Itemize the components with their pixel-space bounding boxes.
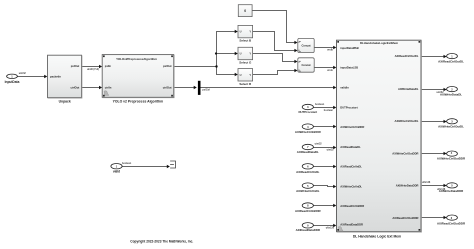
svg-text:AXIReadDataDL: AXIReadDataDL <box>340 145 361 149</box>
svg-text:AXIWriteCtrlOutDL: AXIWriteCtrlOutDL <box>438 125 464 129</box>
svg-text:YOLO v2 Preprocess Algorithm: YOLO v2 Preprocess Algorithm <box>113 100 164 104</box>
svg-text:U: U <box>240 74 242 77</box>
svg-text:YOLOv2PreprocessAlgorithm: YOLOv2PreprocessAlgorithm <box>116 57 157 61</box>
svg-text:uint32: uint32 <box>327 149 335 152</box>
svg-text:AXIReadDataDDR: AXIReadDataDDR <box>340 222 363 226</box>
svg-text:inputDataLSB: inputDataLSB <box>340 66 358 70</box>
svg-text:ctrlOut: ctrlOut <box>70 86 79 90</box>
svg-text:wrdb: wrdb <box>327 49 333 52</box>
svg-text:Concat: Concat <box>301 44 310 48</box>
svg-text:Concat: Concat <box>301 63 310 67</box>
svg-text:ctrlIn: ctrlIn <box>105 85 112 89</box>
svg-text:ufix128: ufix128 <box>326 227 335 230</box>
svg-text:pxlOut: pxlOut <box>71 64 80 68</box>
svg-text:boolean: boolean <box>315 103 325 106</box>
svg-text:Copyright 2022-2023 The MathWo: Copyright 2022-2023 The MathWorks, Inc. <box>130 239 193 243</box>
svg-text:packetIn: packetIn <box>50 74 61 78</box>
svg-text:uint32: uint32 <box>315 143 323 146</box>
svg-text:AXIWriteCtrlInDDR: AXIWriteCtrlInDDR <box>295 130 322 134</box>
svg-text:AXIReadDataDDR: AXIReadDataDDR <box>296 228 321 232</box>
svg-text:ctrlOut: ctrlOut <box>163 85 172 89</box>
svg-text:valid: valid <box>113 170 120 174</box>
svg-text:AXIReadCtrlInDDR: AXIReadCtrlInDDR <box>340 204 364 208</box>
svg-text:DUTProcstart: DUTProcstart <box>298 110 317 114</box>
svg-text:inputDataMSB: inputDataMSB <box>340 46 358 50</box>
svg-text:pxlOut: pxlOut <box>163 64 172 68</box>
svg-text:AXIReadCtrlOutDL: AXIReadCtrlOutDL <box>395 54 419 58</box>
svg-text:AXIReadCtrlOutDL: AXIReadCtrlOutDL <box>438 60 464 64</box>
svg-text:Select R: Select R <box>239 82 252 86</box>
svg-text:AXIReadCtrlInDL: AXIReadCtrlInDL <box>340 165 362 169</box>
svg-text:pxlIn: pxlIn <box>105 64 112 68</box>
svg-text:boolean: boolean <box>324 109 334 112</box>
svg-text:AXIWriteCtrlOutDDR: AXIWriteCtrlOutDDR <box>392 152 418 156</box>
svg-text:AXIWriteDataDL: AXIWriteDataDL <box>398 87 419 91</box>
svg-text:ufix128: ufix128 <box>437 188 446 191</box>
svg-text:AXIReadCtrlInDL: AXIReadCtrlInDL <box>296 170 320 174</box>
svg-text:Select B: Select B <box>239 38 252 42</box>
svg-text:0: 0 <box>244 9 246 13</box>
svg-text:uint8 (7x2): uint8 (7x2) <box>87 68 99 71</box>
svg-text:pxlCtrl: pxlCtrl <box>202 89 210 92</box>
svg-text:AXIReadDataDL: AXIReadDataDL <box>297 150 319 154</box>
svg-text:Select G: Select G <box>239 61 252 65</box>
svg-text:AXIReadCtrlInDDR: AXIReadCtrlInDDR <box>295 209 322 213</box>
svg-text:ufix128: ufix128 <box>422 181 431 184</box>
svg-text:validIn: validIn <box>340 85 349 89</box>
svg-text:AXIReadCtrlOutDDR: AXIReadCtrlOutDDR <box>392 216 418 220</box>
svg-text:AXIWriteCtrlInDL: AXIWriteCtrlInDL <box>340 184 362 188</box>
svg-text:AXIReadCtrlOutDDR: AXIReadCtrlOutDDR <box>437 221 466 225</box>
svg-text:AXIWriteCtrlOutDDR: AXIWriteCtrlOutDDR <box>437 156 466 160</box>
svg-text:boolean: boolean <box>122 162 132 165</box>
svg-text:DUTProcstart: DUTProcstart <box>340 105 357 109</box>
svg-text:DLHandshakeLogicExtMem: DLHandshakeLogicExtMem <box>360 41 398 45</box>
svg-text:AXIWriteCtrlInDL: AXIWriteCtrlInDL <box>296 189 320 193</box>
svg-text:wrsb: wrsb <box>327 69 333 72</box>
svg-text:U: U <box>240 31 242 34</box>
svg-text:DL Handshake Logic Ext Mem: DL Handshake Logic Ext Mem <box>353 235 401 239</box>
svg-text:uint32: uint32 <box>19 72 27 75</box>
svg-text:Unpack: Unpack <box>59 100 71 104</box>
svg-text:AXIWriteDataDDR: AXIWriteDataDDR <box>396 184 419 188</box>
svg-text:U: U <box>240 53 242 56</box>
svg-text:uint32: uint32 <box>437 91 445 94</box>
svg-text:InputData: InputData <box>5 80 20 84</box>
svg-text:AXIWriteCtrlInDDR: AXIWriteCtrlInDDR <box>340 125 364 129</box>
svg-text:AXIWriteCtrlOutDL: AXIWriteCtrlOutDL <box>395 119 419 123</box>
